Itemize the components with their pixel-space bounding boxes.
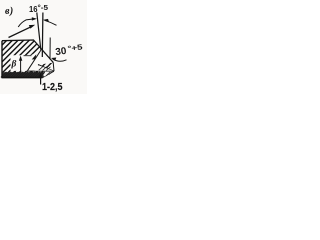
wedge interior lightening [35,65,54,71]
blade right edge line [41,13,44,58]
block left edge [1,41,3,78]
angle dimension arc left segment with arrowhead [18,17,37,27]
blade left edge line [37,13,41,50]
30 deg arc arrow [51,58,67,62]
block bottom edge [2,77,43,79]
annotation pocket [11,50,53,71]
up arrow beside beta [19,56,22,72]
motion leader arrow pointing at blade [9,25,36,38]
strip right wedge lower edge [43,71,55,77]
hatching of block [0,34,80,80]
svg-text:°-5: °-5 [38,4,49,12]
bottom dimension arrow pointing up [39,73,43,85]
angle dimension arc right segment with arrowhead [43,19,57,25]
block top edge and slot edge [2,40,53,63]
arrowhead blob on bevel leg [32,54,37,59]
svg-text:β: β [11,60,17,70]
wedge interior thin hatch [39,66,52,76]
text 30deg+5 [55,42,84,58]
vertical reference line [49,38,51,60]
strip dark underlay [2,72,44,77]
dense hatching of bottom strip [1,72,45,78]
pocket top border segment [24,55,32,57]
svg-text:°+5: °+5 [67,42,83,53]
svg-text:30: 30 [55,46,68,58]
strip right wedge upper edge [38,65,54,72]
strip top line [27,70,55,72]
svg-text:1-2,5: 1-2,5 [42,82,63,93]
blade left bevel leg [28,50,42,71]
svg-text:16: 16 [29,4,38,14]
svg-text:в): в) [5,6,14,17]
block right closing edge [52,63,55,72]
